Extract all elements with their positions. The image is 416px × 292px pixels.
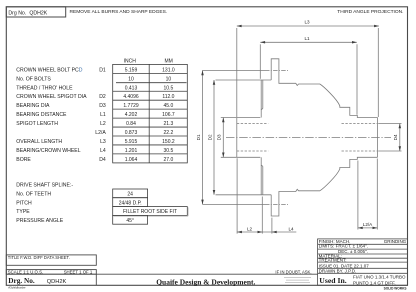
svg-text:PUNTO 1.4 GT DIFF.: PUNTO 1.4 GT DIFF. (353, 280, 396, 285)
svg-text:24: 24 (127, 192, 133, 198)
fillet box shadow (114, 207, 189, 216)
dim D4 (399, 124, 401, 152)
svg-text:21.3: 21.3 (164, 121, 174, 127)
svg-text:L4: L4 (100, 148, 106, 154)
svg-text:L2: L2 (247, 226, 253, 231)
svg-text:D4: D4 (99, 157, 106, 163)
svg-text:24/48 D.P.: 24/48 D.P. (119, 200, 142, 206)
svg-text:45°: 45° (126, 218, 134, 224)
svg-text:QDH2K: QDH2K (47, 279, 67, 285)
svg-text:L1: L1 (304, 36, 310, 41)
row labels (16, 67, 87, 162)
part outline top half (236, 118, 238, 158)
svg-text:SOLID WORKS: SOLID WORKS (384, 287, 407, 291)
svg-text:Quaife Design & Development.: Quaife Design & Development. (156, 277, 255, 286)
svg-text:D2: D2 (99, 94, 106, 100)
tiny address lines (284, 278, 311, 283)
svg-text:22.2: 22.2 (164, 130, 174, 136)
svg-text:FIAT UNO 1.3/1.4 TURBO: FIAT UNO 1.3/1.4 TURBO (353, 275, 406, 280)
svg-text:D1: D1 (99, 67, 106, 73)
svg-text:0.84: 0.84 (126, 121, 136, 127)
svg-text:TYPE: TYPE (16, 209, 30, 215)
svg-text:GRINDING: GRINDING (384, 239, 407, 244)
svg-text:No. OF TEETH: No. OF TEETH (16, 192, 51, 198)
svg-text:1.7729: 1.7729 (123, 103, 139, 109)
svg-text:PRESSURE ANGLE: PRESSURE ANGLE (16, 218, 63, 224)
svg-text:150.2: 150.2 (162, 139, 175, 145)
svg-text:D1: D1 (196, 134, 201, 140)
ref designator column (95, 67, 106, 162)
svg-text:106.7: 106.7 (162, 112, 175, 118)
svg-text:4.4096: 4.4096 (123, 94, 139, 100)
svg-text:IF IN DOUBT, ASK.: IF IN DOUBT, ASK. (275, 270, 311, 275)
scale row (6, 270, 96, 275)
svg-text:QDH2K: QDH2K (29, 10, 47, 16)
inch values (123, 67, 139, 162)
dim D3 (222, 118, 224, 158)
svg-text:REMOVE ALL BURRS AND SHARP EDG: REMOVE ALL BURRS AND SHARP EDGES. (70, 9, 168, 15)
svg-text:1.064: 1.064 (125, 157, 138, 163)
svg-text:5.915: 5.915 (125, 139, 138, 145)
svg-text:D4: D4 (393, 134, 398, 140)
svg-text:BEARING/CROWN WHEEL: BEARING/CROWN WHEEL (16, 148, 80, 154)
svg-text:L4: L4 (288, 226, 294, 231)
svg-text:1.201: 1.201 (125, 148, 138, 154)
title box (6, 255, 96, 265)
svg-text:BEARING DIA: BEARING DIA (16, 103, 50, 109)
svg-text:0.413: 0.413 (125, 85, 138, 91)
dim L3 (237, 25, 379, 27)
svg-text:10: 10 (166, 76, 172, 82)
centerline (226, 136, 391, 138)
data table grid (113, 64, 188, 162)
svg-text:L2/A: L2/A (363, 222, 373, 227)
svg-text:SHEET 1 OF 1: SHEET 1 OF 1 (64, 269, 93, 274)
part outline bottom half (237, 156, 260, 158)
dim D1 (202, 70, 204, 204)
svg-text:DRIVE SHAFT SPLINE:-: DRIVE SHAFT SPLINE:- (16, 183, 73, 189)
dim L1 (260, 41, 357, 43)
svg-text:A3childborder: A3childborder (8, 286, 25, 290)
svg-text:27.0: 27.0 (164, 157, 174, 163)
svg-text:No. OF BOLTS: No. OF BOLTS (16, 76, 51, 82)
quaife row top line (6, 273, 317, 275)
svg-text:PITCH: PITCH (16, 200, 32, 206)
svg-text:Drg. No.: Drg. No. (8, 276, 35, 285)
svg-text:10: 10 (128, 76, 134, 82)
svg-text:DEC. ± 0.005".: DEC. ± 0.005". (338, 249, 368, 254)
drg no box top left (6, 7, 65, 17)
dim D2 (213, 80, 215, 195)
svg-text:30.5: 30.5 (164, 148, 174, 154)
svg-text:112.0: 112.0 (162, 94, 174, 100)
svg-text:131.0: 131.0 (162, 67, 175, 73)
svg-text:D3: D3 (217, 134, 222, 140)
svg-text:Used In.: Used In. (319, 276, 346, 285)
svg-text:INCH: INCH (124, 58, 137, 64)
svg-text:Drg No.: Drg No. (8, 10, 26, 16)
dim L2 / L4 (237, 231, 296, 233)
mm values (162, 67, 175, 162)
svg-text:THREAD / THRO' HOLE: THREAD / THRO' HOLE (16, 85, 73, 91)
svg-text:L3: L3 (304, 20, 310, 25)
svg-text:L1: L1 (100, 112, 106, 118)
bore hidden lines (237, 123, 268, 125)
svg-text:MM: MM (165, 58, 173, 64)
svg-text:L3: L3 (100, 139, 106, 145)
svg-text:SCALE 1:1 U.O.S.: SCALE 1:1 U.O.S. (8, 269, 43, 274)
svg-text:TREATMENT:: TREATMENT: (319, 257, 347, 262)
svg-text:CROWN WHEEL BOLT PCD: CROWN WHEEL BOLT PCD (16, 67, 82, 73)
svg-text:DRAWN BY. J.P.D.: DRAWN BY. J.P.D. (319, 269, 357, 274)
arrowheads (201, 25, 401, 234)
svg-text:THIRD ANGLE PROJECTION.: THIRD ANGLE PROJECTION. (337, 9, 403, 15)
bolt hole centerlines (203, 69, 266, 71)
svg-text:FILLET ROOT SIDE FIT: FILLET ROOT SIDE FIT (123, 209, 177, 215)
drg no row (95, 274, 97, 285)
svg-text:D3: D3 (99, 103, 106, 109)
dimension labels (196, 20, 398, 232)
journal extension left (221, 117, 237, 119)
svg-text:CROWN WHEEL SPIGOT DIA: CROWN WHEEL SPIGOT DIA (16, 94, 87, 100)
svg-text:L2: L2 (100, 121, 106, 127)
svg-text:5.159: 5.159 (125, 67, 138, 73)
dim L2/A (358, 227, 377, 229)
svg-text:10.5: 10.5 (164, 85, 174, 91)
svg-text:BORE: BORE (16, 157, 31, 163)
svg-text:L2/A: L2/A (95, 130, 106, 136)
svg-text:OVERALL LENGTH: OVERALL LENGTH (16, 139, 62, 145)
svg-text:45.0: 45.0 (164, 103, 174, 109)
svg-text:0.873: 0.873 (125, 130, 138, 136)
svg-text:BEARING DISTANCE: BEARING DISTANCE (16, 112, 67, 118)
svg-text:TITLE F.W.D. DIFF DATA SHEET.: TITLE F.W.D. DIFF DATA SHEET. (8, 255, 70, 260)
svg-text:D2: D2 (207, 134, 212, 140)
svg-text:4.202: 4.202 (125, 112, 138, 118)
svg-text:SPIGOT LENGTH: SPIGOT LENGTH (16, 121, 58, 127)
svg-text:ISSUE 01. DATE 22.1.07: ISSUE 01. DATE 22.1.07 (319, 263, 370, 268)
